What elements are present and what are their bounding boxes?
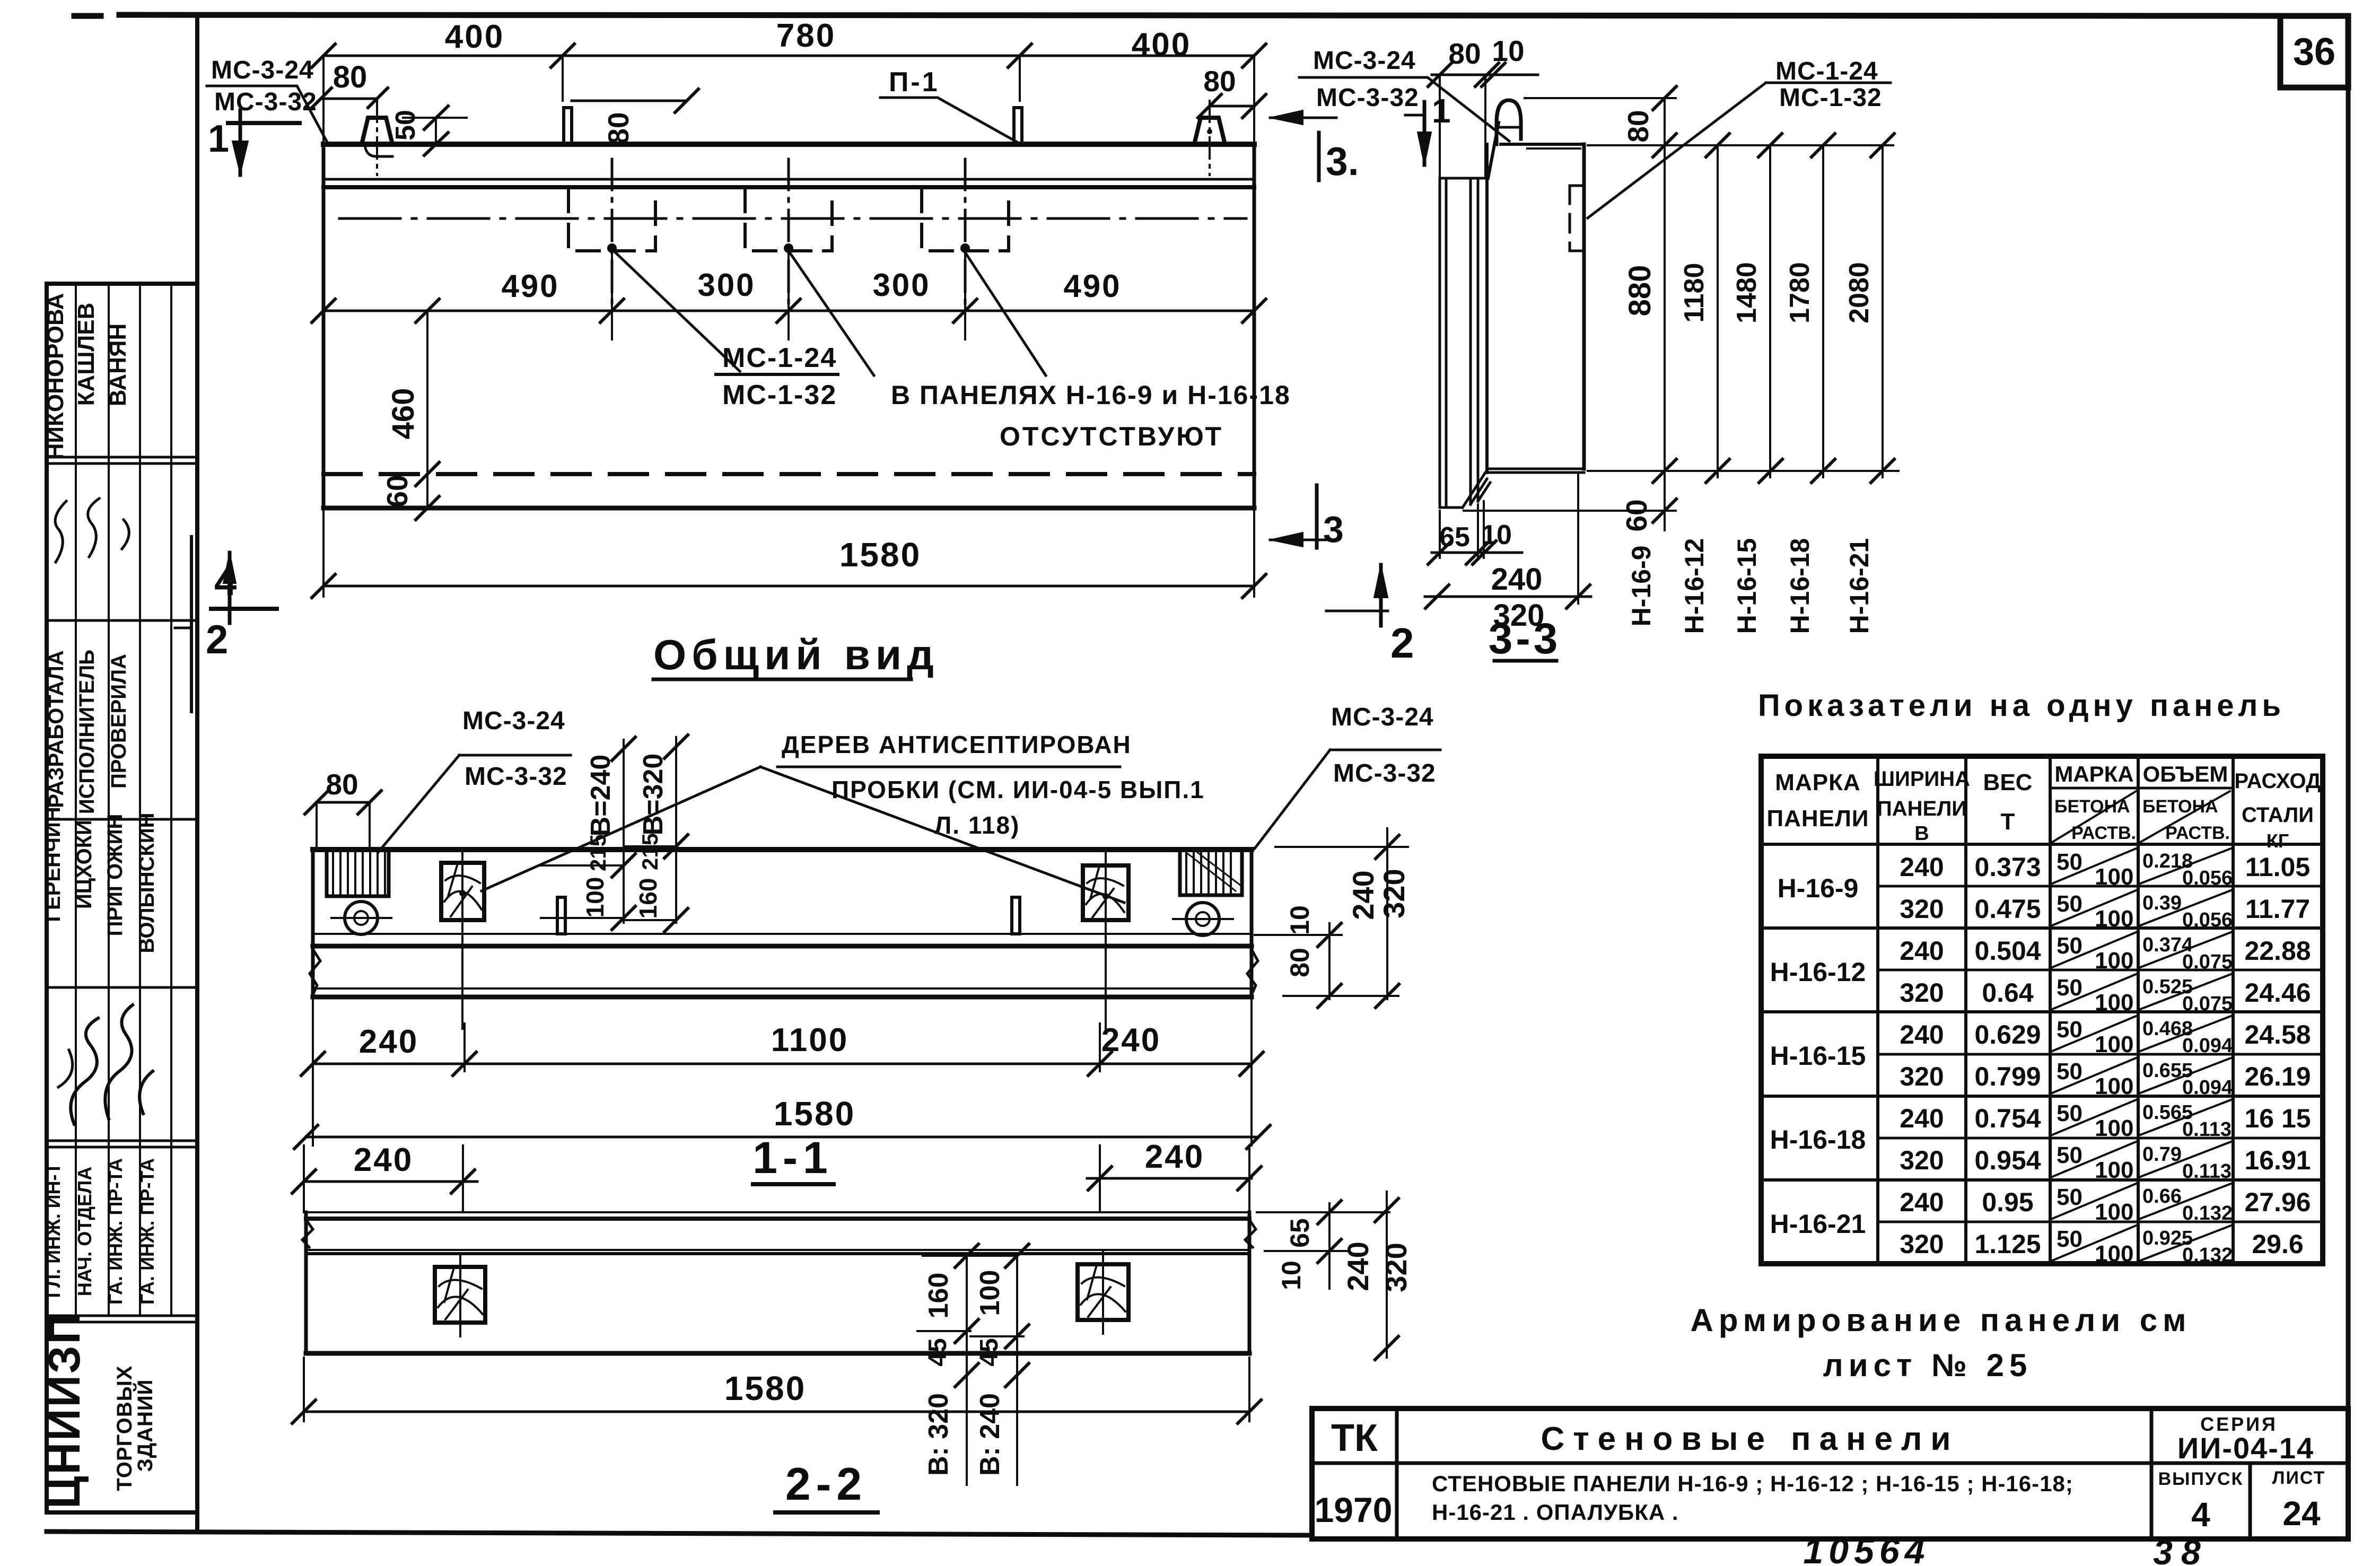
svg-text:38: 38 [2153,1533,2209,1566]
obyem cells [2142,850,2233,1266]
svg-text:Н-16-18: Н-16-18 [1785,538,1815,634]
svg-text:МС-1-24: МС-1-24 [722,343,837,373]
svg-text:240: 240 [1341,1241,1375,1291]
svg-text:МС-1-32: МС-1-32 [722,380,837,410]
extension lines for 80 vertical dim [1525,97,1676,99]
svg-text:МС-1-24: МС-1-24 [1775,57,1878,85]
TITLEBLOCK [1312,1408,2348,1566]
svg-text:10: 10 [1492,34,1524,67]
svg-text:ВОЛЫНСКИН: ВОЛЫНСКИН [135,812,159,953]
svg-text:0.754: 0.754 [1974,1104,2041,1133]
svg-text:10: 10 [1276,1261,1306,1290]
five stacked dim verticals [1665,98,1883,530]
svg-text:ЛИСТ: ЛИСТ [2272,1468,2326,1488]
svg-text:320: 320 [1900,978,1944,1008]
svg-text:100: 100 [2095,1157,2133,1183]
svg-text:80: 80 [1622,110,1655,142]
right side dims 65/10 and 240/320 [1257,1211,1389,1213]
SECTION22 [292,1139,1413,1512]
svg-text:Н-16-18: Н-16-18 [1770,1125,1866,1154]
double line under top edge [323,178,1254,181]
svg-text:МАРКА: МАРКА [1775,769,1860,795]
svg-text:0.504: 0.504 [1974,936,2041,966]
svg-text:Н-16-15: Н-16-15 [1732,538,1762,634]
svg-text:НАЧ. ОТДЕЛА: НАЧ. ОТДЕЛА [74,1167,95,1297]
svg-text:0.094: 0.094 [2182,1035,2233,1057]
section mark 2 right of plan [1379,565,1383,626]
svg-text:50: 50 [2057,975,2082,1001]
svg-text:24.46: 24.46 [2244,978,2311,1008]
svg-text:2: 2 [206,617,228,662]
right80 dim near right trapezoid [1210,105,1254,108]
svg-text:60: 60 [381,475,414,507]
svg-text:0.094: 0.094 [2182,1077,2233,1099]
svg-text:50: 50 [2057,849,2082,875]
svg-text:100: 100 [2095,1199,2133,1225]
svg-text:РАСТВ.: РАСТВ. [2071,823,2136,843]
svg-text:1970: 1970 [1315,1490,1393,1529]
top dims 240 [304,1178,1252,1182]
svg-text:26.19: 26.19 [2244,1062,2311,1091]
svg-text:3.: 3. [1326,139,1359,183]
svg-text:ПРИГОЖИН: ПРИГОЖИН [103,814,127,937]
svg-text:460: 460 [386,388,421,440]
svg-text:1-1: 1-1 [752,1133,833,1183]
sheet bottom border [47,1532,1312,1535]
svg-text:100: 100 [2095,990,2133,1016]
svg-text:490: 490 [1063,268,1121,304]
svg-text:ЗДАНИЙ: ЗДАНИЙ [133,1379,157,1472]
bottom ext + ticks [1588,470,1898,472]
svg-text:50: 50 [2057,1184,2082,1210]
svg-text:45: 45 [975,1338,1003,1366]
svg-text:2-2: 2-2 [785,1459,867,1510]
svg-text:160: 160 [634,878,662,919]
svg-text:ОБЪЕМ: ОБЪЕМ [2143,762,2228,786]
svg-text:ИИ-04-14: ИИ-04-14 [2177,1431,2314,1465]
svg-text:БЕТОНА: БЕТОНА [2142,797,2218,817]
svg-text:24: 24 [2282,1494,2321,1533]
svg-text:400: 400 [445,19,504,55]
svg-text:0.075: 0.075 [2182,951,2233,973]
svg-text:320: 320 [1379,1243,1413,1292]
svg-text:БЕТОНА: БЕТОНА [2054,797,2130,817]
svg-text:400: 400 [1132,27,1191,63]
svg-text:В=320: В=320 [638,754,669,836]
svg-text:1580: 1580 [774,1095,855,1133]
svg-text:100: 100 [2095,1115,2133,1141]
svg-text:МАРКА: МАРКА [2054,762,2133,786]
svg-text:80: 80 [333,60,367,94]
svg-text:780: 780 [776,18,836,54]
page number box 36 [2280,16,2348,88]
svg-text:50: 50 [2057,1100,2082,1126]
svg-text:80: 80 [1285,948,1315,977]
wood plugs [435,1267,485,1323]
svg-text:0.132: 0.132 [2182,1202,2233,1224]
svg-text:Л. 118): Л. 118) [934,811,1020,839]
lifting loop in side view [1497,100,1521,144]
svg-text:ГА. ИНЖ. ПР-ТА: ГА. ИНЖ. ПР-ТА [136,1158,158,1305]
svg-text:П-1: П-1 [889,67,940,98]
middle vertical dims B240/B320 [624,737,676,923]
svg-text:50: 50 [2057,891,2082,917]
svg-text:50: 50 [2057,1226,2082,1252]
svg-text:240: 240 [1491,562,1543,597]
svg-text:0.954: 0.954 [1974,1145,2041,1175]
svg-text:240: 240 [1346,870,1380,920]
svg-text:300: 300 [697,267,755,303]
svg-text:16 15: 16 15 [2244,1104,2311,1133]
svg-text:10: 10 [1285,905,1315,935]
svg-text:215: 215 [637,833,662,870]
svg-text:МС-3-24: МС-3-24 [462,707,565,735]
svg-text:В: 240: В: 240 [975,1393,1005,1476]
panel outline 1-1 [313,847,1252,852]
svg-text:100: 100 [2095,864,2133,890]
svg-text:Армирование панели см: Армирование панели см [1690,1302,2191,1338]
svg-text:0.113: 0.113 [2182,1160,2232,1183]
svg-text:ПРОБКИ (СМ. ИИ-04-5 ВЫП.1: ПРОБКИ (СМ. ИИ-04-5 ВЫП.1 [832,776,1205,803]
left zigzag break [310,949,320,995]
1580 dim [304,1358,1249,1421]
svg-text:100: 100 [975,1270,1005,1316]
svg-text:60: 60 [1620,499,1653,531]
svg-text:НИКОНОРОВА: НИКОНОРОВА [42,293,68,460]
svg-text:РАСХОД: РАСХОД [2234,769,2321,793]
sheet right border [2346,16,2351,1539]
svg-text:0.075: 0.075 [2182,993,2233,1015]
width + weight + rashod columns [1900,852,2311,1259]
svg-text:ПАНЕЛИ: ПАНЕЛИ [1877,797,1967,820]
svg-text:80: 80 [602,112,635,144]
svg-text:1580: 1580 [839,536,921,574]
svg-text:Н-16-15: Н-16-15 [1770,1041,1866,1071]
svg-text:1580: 1580 [724,1369,806,1407]
svg-text:50: 50 [2057,1058,2082,1084]
svg-text:0.95: 0.95 [1982,1187,2033,1217]
svg-text:320: 320 [1900,1145,1944,1175]
svg-text:0.799: 0.799 [1974,1062,2041,1091]
svg-text:50: 50 [390,110,421,141]
svg-text:100: 100 [2095,906,2133,932]
svg-text:Показатели на одну панель: Показатели на одну панель [1758,688,2285,723]
svg-text:100: 100 [2095,1073,2133,1099]
svg-text:В: 320: В: 320 [923,1393,954,1476]
svg-text:3: 3 [1323,509,1344,550]
P-1 plates [564,108,572,144]
signatures small [55,498,129,562]
svg-text:0.132: 0.132 [2182,1244,2233,1266]
svg-text:240: 240 [1900,936,1944,966]
svg-text:лист № 25: лист № 25 [1823,1348,2033,1383]
svg-text:10564: 10564 [1803,1531,1930,1566]
svg-text:ТОРГОВЫХ: ТОРГОВЫХ [113,1365,136,1491]
svg-text:Общий вид: Общий вид [653,631,939,678]
svg-text:Н-16-21 . ОПАЛУБКА .: Н-16-21 . ОПАЛУБКА . [1432,1500,1679,1525]
marka betona 50/100 cells [2057,849,2133,1267]
dashed MC-1 pocket [1570,186,1583,251]
svg-text:50: 50 [2057,1017,2082,1043]
svg-text:Стеновые панели: Стеновые панели [1541,1421,1959,1457]
1580 dim [323,508,1254,597]
svg-text:4: 4 [2191,1495,2210,1534]
svg-text:0.056: 0.056 [2182,867,2233,889]
middle vertical dim stack [967,1256,1017,1485]
svg-text:2080: 2080 [1844,262,1875,323]
SECTION11 [294,631,1440,1184]
svg-text:320: 320 [1900,1229,1944,1259]
svg-text:100: 100 [2095,948,2133,974]
section mark 2 under side view [1385,585,1386,660]
svg-text:КГ: КГ [2267,830,2289,852]
svg-text:Т: Т [2001,809,2015,835]
loop circles [345,902,378,934]
svg-text:ЦНИИЗП: ЦНИИЗП [39,1310,89,1509]
svg-text:ВАНЯН: ВАНЯН [105,323,131,407]
svg-text:11.77: 11.77 [2245,894,2310,924]
svg-text:0.373: 0.373 [1974,852,2041,882]
svg-text:240: 240 [1900,852,1944,882]
svg-text:880: 880 [1623,265,1657,317]
dashed line near bottom [323,472,1254,476]
svg-text:50: 50 [2057,933,2082,959]
svg-text:СТАЛИ: СТАЛИ [2242,803,2314,827]
svg-text:1480: 1480 [1731,262,1762,323]
svg-text:Н-16-21: Н-16-21 [1844,538,1874,634]
svg-text:16.91: 16.91 [2244,1145,2311,1175]
svg-text:80: 80 [1448,37,1481,70]
svg-text:МС-1-32: МС-1-32 [1779,84,1882,112]
anchor centre dash-dot verticals [612,159,965,305]
bottom dim 1580 [306,1136,1258,1139]
svg-text:80: 80 [1203,65,1236,98]
svg-text:КАШЛЕВ: КАШЛЕВ [73,303,99,406]
svg-text:3-3: 3-3 [1489,615,1561,663]
svg-text:ПАНЕЛИ: ПАНЕЛИ [1766,806,1869,832]
sheet left inner frame [196,16,199,274]
svg-text:160: 160 [923,1273,954,1319]
svg-text:МС-3-32: МС-3-32 [1316,84,1419,112]
section mark 4/2 bottom-left [190,537,193,712]
svg-text:0.629: 0.629 [1974,1020,2041,1049]
svg-text:Н-16-9: Н-16-9 [1626,546,1656,627]
svg-text:320: 320 [1377,869,1411,918]
svg-text:27.96: 27.96 [2244,1187,2311,1217]
svg-text:МС-3-32: МС-3-32 [1333,759,1436,788]
svg-text:ПРОВЕРИЛА: ПРОВЕРИЛА [107,654,130,789]
left 80 dim [321,98,377,100]
SIDEVIEW [1270,34,1898,663]
svg-text:Н-16-9: Н-16-9 [1778,873,1859,903]
svg-text:МС-3-32: МС-3-32 [465,763,567,791]
svg-text:ТК: ТК [1331,1417,1378,1459]
svg-text:240: 240 [1900,1187,1944,1217]
svg-text:МС-3-24: МС-3-24 [211,56,314,84]
svg-text:РАСТВ.: РАСТВ. [2165,823,2230,843]
svg-text:0.64: 0.64 [1982,978,2034,1008]
svg-text:24.58: 24.58 [2244,1020,2311,1049]
svg-text:240: 240 [354,1142,413,1178]
svg-text:ГА. ИНЖ. ПР-ТА: ГА. ИНЖ. ПР-ТА [104,1158,126,1305]
svg-text:100: 100 [581,877,609,918]
wood plugs [441,863,484,920]
thin strip (panel edge) [1440,178,1478,508]
svg-text:36: 36 [2293,31,2335,73]
hatched blocks [327,850,389,896]
panel outline plan view [323,142,1254,147]
right 80 dim (horizontal above plate) [572,100,687,102]
TOPVIEW [175,18,1509,712]
svg-text:50: 50 [2057,1142,2082,1168]
svg-text:РАЗРАБОТАЛА: РАЗРАБОТАЛА [45,650,68,808]
leaders to MC-1 label [612,249,1046,375]
svg-text:45: 45 [924,1338,952,1366]
svg-text:22.88: 22.88 [2244,936,2311,966]
svg-text:490: 490 [501,268,559,304]
LEFTBLOCK [39,16,197,1532]
svg-text:В=240: В=240 [585,755,616,837]
sheet top border [74,15,2348,16]
svg-text:240: 240 [1900,1104,1944,1133]
svg-text:ШИРИНА: ШИРИНА [1874,767,1970,791]
svg-text:1.125: 1.125 [1974,1229,2041,1259]
TABLE [1690,688,2323,1383]
460 vertical dim [426,311,428,474]
svg-text:29.6: 29.6 [2252,1229,2303,1259]
svg-text:МС-3-32: МС-3-32 [214,88,317,116]
svg-text:МС-3-24: МС-3-24 [1313,47,1416,75]
svg-text:ВЕС: ВЕС [1983,769,2033,795]
svg-text:Н-16-21: Н-16-21 [1770,1209,1866,1239]
svg-text:ИСПОЛНИТЕЛЬ: ИСПОЛНИТЕЛЬ [75,650,99,814]
svg-text:240: 240 [1145,1139,1204,1175]
svg-text:320: 320 [1900,1062,1944,1091]
svg-text:1180: 1180 [1679,263,1710,323]
axis dash-dot [339,217,1246,220]
svg-text:ИЦХОКИ: ИЦХОКИ [73,820,96,909]
svg-text:В: В [1914,823,1929,845]
svg-text:ОТСУТСТВУЮТ: ОТСУТСТВУЮТ [1000,422,1223,451]
svg-text:100: 100 [2095,1031,2133,1057]
490 300 300 490 dim line [323,310,1254,312]
right 10/80 dims [1275,846,1408,848]
main body [1485,144,1489,473]
lifting loop trapezoid right [1194,118,1225,144]
top dim line 400 780 400 [323,55,1254,57]
grid [1761,756,2323,1264]
svg-text:ДЕРЕВ АНТИСЕПТИРОВАН: ДЕРЕВ АНТИСЕПТИРОВАН [782,731,1132,758]
svg-text:65: 65 [1285,1218,1315,1248]
svg-text:11.05: 11.05 [2245,852,2310,882]
svg-text:0.056: 0.056 [2182,909,2233,931]
svg-text:240: 240 [359,1023,418,1060]
svg-text:300: 300 [872,267,930,303]
svg-text:1100: 1100 [771,1022,849,1058]
bottom dim 240/1100/240 [313,1000,1252,1145]
svg-text:СТЕНОВЫЕ ПАНЕЛИ Н-16-9 ;: СТЕНОВЫЕ ПАНЕЛИ Н-16-9 ; Н-16-12 ; Н-16-… [1432,1471,2073,1496]
svg-text:ВЫПУСК: ВЫПУСК [2158,1469,2244,1489]
svg-text:0.113: 0.113 [2182,1118,2232,1141]
lifting loop trapezoid left [362,118,392,144]
svg-text:0.475: 0.475 [1974,894,2041,924]
svg-text:Н-16-12: Н-16-12 [1770,957,1866,987]
svg-text:1: 1 [1432,92,1451,130]
small plates [557,897,565,934]
svg-text:2: 2 [1390,619,1414,667]
anchor boxes dashed (3) [568,189,1009,251]
svg-text:240: 240 [1900,1020,1944,1049]
svg-text:ГЛ. ИНЖ. ИН-Т: ГЛ. ИНЖ. ИН-Т [42,1162,64,1298]
panel 2-2 [306,1211,1249,1213]
svg-text:В ПАНЕЛЯХ Н-16-9 и Н-16-18: В ПАНЕЛЯХ Н-16-9 и Н-16-18 [891,380,1291,410]
svg-text:1780: 1780 [1784,262,1815,323]
svg-text:80: 80 [326,768,358,801]
svg-text:240: 240 [1101,1022,1161,1058]
svg-text:Н-16-12: Н-16-12 [1679,538,1709,634]
svg-text:МС-3-24: МС-3-24 [1331,703,1434,731]
signatures big [71,1005,153,1124]
svg-text:ГЕРЕНЧИН: ГЕРЕНЧИН [41,807,65,922]
svg-text:320: 320 [1900,894,1944,924]
60 vertical dim [426,474,428,508]
svg-text:100: 100 [2095,1241,2133,1267]
